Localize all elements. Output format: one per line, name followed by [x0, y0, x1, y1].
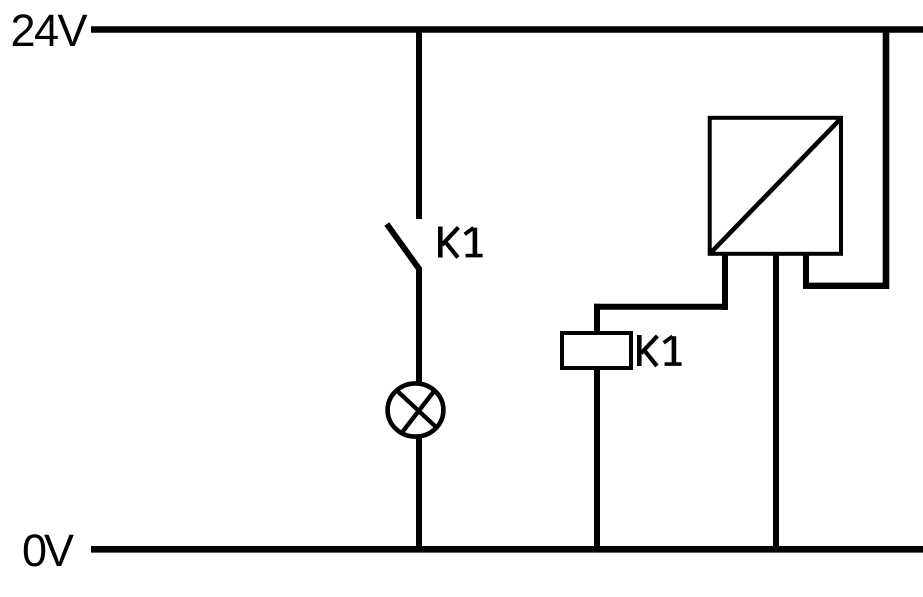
box U1 (function block square)	[710, 118, 841, 254]
wire horizontal from box right pin to feed wire	[803, 283, 889, 289]
wire feed from top rail down to box right pin	[883, 27, 890, 289]
wire coil bottom pin to bottom rail	[594, 368, 600, 551]
wire horizontal jog from coil branch to box left pin	[594, 304, 728, 310]
wire from top rail down to switch K1	[416, 27, 422, 219]
lamp P1 circle	[388, 383, 444, 436]
wire box left pin down	[722, 253, 728, 310]
svg-text:24V: 24V	[11, 5, 88, 56]
wire 24V top rail	[91, 26, 923, 33]
lamp P1 cross stroke 2	[403, 391, 434, 431]
wire box middle pin to bottom rail	[773, 253, 779, 551]
wire coil top pin up	[594, 304, 600, 333]
coil K1 rectangle	[562, 333, 631, 368]
wire box right pin down	[803, 253, 809, 289]
wire from lamp to bottom rail	[416, 437, 422, 551]
svg-text:0V: 0V	[22, 525, 74, 576]
wire 0V bottom rail	[91, 546, 923, 553]
label K1 (switch)	[440, 227, 482, 258]
wire from switch to lamp	[416, 267, 422, 383]
lamp P1 cross stroke 1	[396, 390, 437, 428]
label K1 (coil)	[639, 335, 681, 366]
box U1 diagonal	[711, 119, 841, 253]
switch K1 (normally-open contact blade)	[387, 224, 420, 270]
